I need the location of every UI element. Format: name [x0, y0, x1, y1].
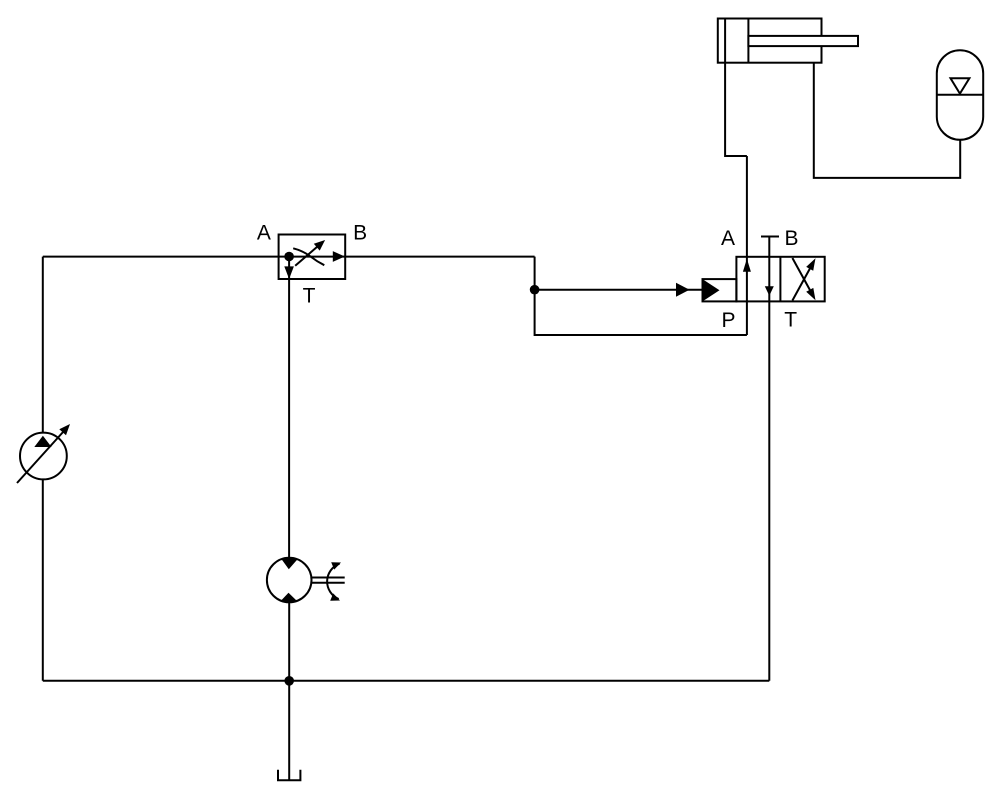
compensator adjustment arrowhead	[59, 424, 70, 435]
wire: corner drop to pilot junction	[534, 257, 536, 290]
wire: left riser lower segment	[42, 480, 44, 681]
accumulator separator line	[937, 94, 983, 96]
junction node at flow valve A-T branch	[284, 252, 294, 262]
directional valve position divider	[779, 257, 781, 302]
svg-text:A: A	[257, 221, 271, 244]
rotation arc arrowhead top	[331, 562, 341, 569]
valve P-to-A up arrowhead	[743, 259, 751, 272]
wire: main pressure line from left riser through flow valve to corner	[43, 256, 535, 258]
pump/motor circle	[267, 558, 312, 603]
wire: pump to bottom return junction	[288, 602, 290, 681]
blocked port B bar	[761, 236, 779, 238]
valve crossed path arrowhead 2	[806, 288, 815, 300]
wire: B/T vertical line through valve down to return	[768, 237, 770, 681]
wire: bottom return line	[43, 680, 770, 682]
cylinder left end cap line	[724, 19, 726, 63]
compensator adjustment arrow shaft	[17, 432, 64, 484]
junction node pilot branch	[530, 285, 540, 295]
wire: left riser upper segment	[42, 257, 44, 433]
valve crossed path line 1	[792, 262, 813, 301]
svg-text:B: B	[353, 222, 367, 245]
flow control valve adjustment arrowhead	[314, 240, 325, 251]
pump shaft upper line	[312, 577, 345, 579]
svg-text:B: B	[784, 227, 798, 250]
svg-text:T: T	[784, 309, 797, 332]
cylinder body	[718, 19, 822, 63]
tank symbol	[278, 770, 300, 781]
flow valve branch arrowhead (to T)	[284, 266, 294, 279]
wire: P supply loop	[535, 290, 747, 335]
flow control valve adjustment arrow shaft	[295, 245, 319, 266]
svg-text:P: P	[721, 309, 735, 332]
pump lower triangle (pointing in)	[280, 593, 297, 602]
pump rotation arc	[327, 564, 339, 599]
pilot line flow arrowhead	[676, 283, 690, 297]
valve B-to-T down arrowhead	[765, 286, 774, 296]
wire: junction to tank	[288, 681, 290, 781]
valve crossed path line 2	[792, 258, 813, 297]
flow control valve throttle arc	[293, 248, 324, 265]
pilot line to directional valve	[535, 289, 703, 291]
svg-text:A: A	[721, 227, 735, 250]
cylinder piston	[747, 19, 749, 63]
flow control valve body	[279, 235, 346, 280]
pump upper triangle (pointing in)	[281, 559, 298, 570]
wire: flow valve T branch down to pump	[288, 257, 290, 558]
rotation arc arrowhead bottom	[330, 593, 340, 600]
compensator flow triangle	[34, 436, 51, 447]
pump shaft lower line	[312, 582, 345, 584]
cylinder piston rod	[748, 36, 858, 46]
accumulator gas triangle	[951, 78, 970, 93]
junction node at bottom return	[284, 676, 294, 686]
directional valve pilot head box	[703, 279, 737, 301]
wire cylinder left port to valve port A	[725, 63, 747, 156]
svg-text:T: T	[303, 285, 316, 308]
directional valve body	[736, 257, 824, 302]
accumulator shell	[937, 50, 983, 140]
wire: A/P vertical line through valve	[746, 156, 748, 335]
pilot head triangle	[703, 279, 720, 301]
valve crossed path arrowhead 1	[806, 258, 815, 270]
pressure compensator (variable) circle	[20, 433, 67, 480]
flow control valve output arrowhead (to B)	[333, 251, 345, 262]
wire cylinder right port to accumulator	[814, 63, 960, 178]
